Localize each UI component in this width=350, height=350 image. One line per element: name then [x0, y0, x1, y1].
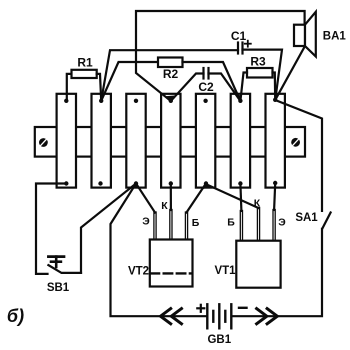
node lamella7 bottom	[273, 181, 277, 185]
VT1 emitter pin	[273, 210, 275, 242]
wire lamella2 top to R2 left	[101, 62, 158, 101]
VT2 collector pin	[170, 210, 172, 240]
node lamella6 bottom	[238, 181, 242, 185]
junction wedge lamella7 top	[275, 94, 278, 100]
VT1 collector pin	[257, 208, 259, 242]
switch SA1 blade	[322, 213, 330, 229]
wire lamella1 bottom to SB1 left	[36, 184, 66, 274]
svg-text:Б: Б	[192, 217, 200, 229]
wire lamella5 bottom to VT2 base	[187, 184, 206, 213]
wire speaker bottom to lamella7 top	[275, 46, 305, 100]
wire speaker top to lamella4 top	[136, 11, 305, 101]
lamella 4	[161, 94, 180, 188]
svg-text:R1: R1	[77, 56, 93, 70]
wire lamella6 bottom to VT1 base	[240, 184, 241, 212]
wire lamella4 bottom to VT2 collector	[170, 184, 172, 211]
svg-text:SA1: SA1	[295, 212, 318, 224]
svg-text:GB1: GB1	[207, 334, 231, 346]
transistor VT1	[236, 241, 280, 288]
node lamella4 top	[169, 99, 173, 103]
wire lamella2 top to C1 left plate	[101, 50, 238, 101]
svg-text:Б: Б	[227, 217, 235, 229]
wire C1 right to lamella7 top	[243, 50, 283, 100]
wire lamella7 top to switch SA1	[275, 100, 322, 211]
lamella 7	[266, 94, 285, 188]
svg-text:VT2: VT2	[128, 266, 149, 278]
junction wedge lamella4 top	[165, 95, 176, 101]
VT1 base pin	[240, 211, 242, 242]
node lamella4 bottom	[169, 181, 173, 185]
capacitor C2	[204, 68, 209, 79]
node lamella5 top	[203, 99, 207, 103]
wire lamella5 bottom to VT1 collector	[206, 184, 259, 208]
node lamella3 bottom	[134, 181, 138, 185]
svg-text:К: К	[254, 198, 261, 210]
node lamella6 top	[238, 99, 242, 103]
battery GB1	[207, 304, 231, 328]
wire R1 left to lamella1 top	[67, 74, 72, 101]
resistor R3	[247, 68, 273, 78]
svg-text:C2: C2	[198, 80, 214, 94]
right mounting screw	[291, 138, 300, 147]
VT2 base pin	[185, 212, 187, 240]
svg-text:К: К	[161, 200, 168, 212]
svg-text:C1: C1	[231, 29, 247, 43]
wire lamella7 bottom to VT1 emitter	[274, 184, 275, 211]
svg-text:R3: R3	[250, 55, 266, 69]
svg-text:R2: R2	[163, 67, 179, 81]
lamella 1	[57, 94, 76, 188]
wire R2 right to lamella6 top	[183, 62, 241, 101]
node lamella1 bottom	[64, 181, 68, 185]
svg-text:Э: Э	[278, 217, 286, 229]
node lamella5 bottom	[204, 181, 208, 185]
wire R1 right to lamella2 top	[97, 74, 102, 101]
left mounting screw	[39, 138, 48, 147]
svg-text:SB1: SB1	[47, 282, 70, 294]
wire SB1 right to lamella3 bottom	[81, 184, 136, 273]
resistor R1	[72, 70, 97, 78]
push button SB1	[48, 257, 81, 273]
speaker BA1	[294, 12, 316, 57]
node lamella2 bottom	[98, 181, 102, 185]
capacitor C1	[238, 43, 243, 54]
wire R3 right to lamella7 top	[273, 73, 276, 101]
junction wedge lamella5 bottom	[202, 184, 211, 189]
connector arrows left	[161, 309, 182, 324]
junction wedge lamella6 top	[237, 95, 242, 101]
lamella 2	[92, 94, 111, 188]
svg-text:Э: Э	[142, 216, 150, 228]
wire R3 left to lamella6 top	[240, 73, 247, 102]
wire lamella3 bottom to VT2 emitter	[136, 184, 155, 213]
svg-text:б): б)	[7, 306, 24, 326]
svg-text:VT1: VT1	[214, 265, 236, 277]
junction wedge lamella3 bottom	[131, 184, 140, 189]
terminal strip base bar	[35, 127, 305, 157]
resistor R2	[158, 58, 183, 68]
wire battery left to SB1 side	[111, 184, 206, 317]
node lamella7 top	[273, 98, 277, 102]
svg-text:BA1: BA1	[323, 31, 347, 43]
junction wedge lamella2 top	[101, 94, 105, 101]
battery polarity plus	[197, 305, 204, 312]
battery polarity minus	[239, 307, 247, 309]
node lamella1 top	[64, 99, 68, 103]
lamella 3	[126, 94, 145, 188]
lamella 6	[231, 94, 250, 188]
connector arrows right	[257, 309, 278, 324]
wire SA1 bottom to battery right	[233, 229, 322, 316]
lamella 5	[196, 94, 215, 188]
wire C2 right to lamella6 top	[209, 74, 241, 102]
wire C2 left to lamella4 top	[171, 74, 204, 102]
label C1 plus	[245, 41, 251, 47]
VT2 emitter pin	[154, 212, 156, 240]
node lamella2 top	[99, 99, 103, 103]
node lamella3 top	[134, 99, 138, 103]
transistor VT2	[150, 240, 193, 287]
